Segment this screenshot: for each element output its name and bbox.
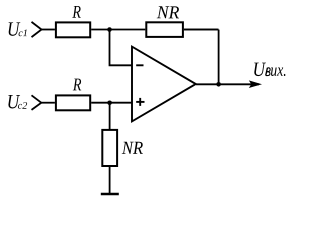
- svg-text:R: R: [72, 74, 81, 94]
- svg-text:c1: c1: [18, 28, 28, 39]
- svg-text:NR: NR: [156, 2, 179, 22]
- svg-text:NR: NR: [121, 139, 143, 159]
- svg-text:U: U: [253, 59, 267, 81]
- svg-text:R: R: [72, 2, 81, 22]
- svg-text:их.: их.: [270, 60, 286, 80]
- svg-text:c2: c2: [18, 101, 28, 112]
